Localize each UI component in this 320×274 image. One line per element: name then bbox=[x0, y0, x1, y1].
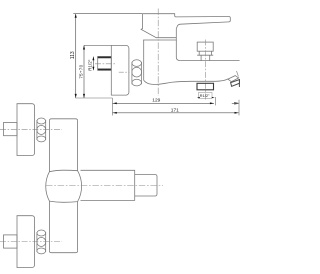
body bar left edge bbox=[48, 121, 50, 251]
inlet 2 union pipe bbox=[4, 235, 18, 248]
extension/flange-top line (75÷70 top) bbox=[84, 44, 112, 46]
aerator block A bbox=[228, 76, 239, 82]
body top line bbox=[180, 60, 239, 62]
dimension 171 arrows bbox=[113, 112, 239, 114]
flange escutcheon cup bbox=[111, 45, 129, 95]
spout tube (plan) bbox=[81, 170, 135, 200]
shower connector neck bbox=[201, 55, 210, 61]
extension line left (wall face) for 129/171 bbox=[111, 98, 113, 116]
shower connector centerline bbox=[204, 40, 206, 100]
inlet 2 flange disc (edge view) bbox=[17, 216, 35, 268]
spout axis centerline bbox=[46, 185, 163, 187]
svg-text:113: 113 bbox=[70, 51, 76, 59]
union thread band bottom (thick) bbox=[98, 68, 112, 70]
R1/2 text box bbox=[199, 93, 213, 99]
svg-text:171: 171 bbox=[171, 108, 179, 114]
inlet 1 union pipe bbox=[4, 123, 18, 136]
body bar bottom edge bbox=[49, 251, 77, 253]
svg-text:R1/2": R1/2" bbox=[87, 59, 92, 71]
union centerline bbox=[95, 63, 117, 65]
outlet width arrows bbox=[197, 97, 215, 98]
extension line bottom (body bottom plane) bbox=[75, 97, 112, 99]
dimension R1/2 arrows bbox=[92, 57, 94, 71]
aerator clipped edge bbox=[238, 79, 240, 87]
inlet 1 flange disc (edge view) bbox=[17, 104, 35, 156]
dimension 75÷70 arrows bbox=[83, 46, 85, 98]
extra arrow at right (129 aux) bbox=[232, 102, 239, 104]
cartridge axis centerline (vertical) bbox=[157, 9, 159, 97]
dimension 129 line bbox=[113, 102, 214, 104]
svg-text:75÷70: 75÷70 bbox=[78, 64, 83, 78]
inlet 2 nut bbox=[37, 230, 46, 254]
aerator block B (dark) bbox=[231, 80, 241, 87]
cartridge housing right edge with corner into body top bbox=[176, 40, 180, 61]
inlet 1 centerline bbox=[0, 128, 62, 130]
extension line mid (spout outlet) bbox=[215, 97, 217, 105]
cartridge housing left edge / body left bbox=[143, 40, 145, 80]
dimension 113 line bbox=[73, 14, 142, 98]
cartridge bulge (plan) bbox=[46, 170, 82, 202]
spout tip (plan) bbox=[135, 175, 157, 197]
lever handle outline bbox=[141, 14, 230, 38]
dimension 171 line bbox=[113, 112, 239, 114]
shower connector collar bbox=[199, 51, 211, 55]
svg-text:R1/2": R1/2" bbox=[200, 93, 210, 98]
shower connector on top: outer block bbox=[197, 42, 213, 51]
cartridge cap top line bbox=[143, 29, 176, 40]
dimension 129 arrows bbox=[113, 102, 214, 104]
union thread band top (thick) bbox=[98, 56, 112, 58]
body bar top edge bbox=[49, 119, 77, 121]
dimension 75÷70 line bbox=[83, 45, 85, 98]
body bar right edge bbox=[77, 121, 79, 251]
dimension R1/2 line (union thread) bbox=[92, 57, 94, 71]
inlet 1 nut bbox=[37, 118, 46, 142]
svg-text:129: 129 bbox=[152, 98, 160, 104]
shower outlet G-box below body (thick) bbox=[197, 83, 214, 90]
inlet 2 centerline bbox=[0, 241, 62, 243]
body bottom line bbox=[144, 79, 229, 85]
extension line right (spout tip) bbox=[238, 100, 240, 116]
shower connector flange line bbox=[197, 54, 213, 56]
eccentric union body bbox=[98, 57, 112, 71]
dimension 113 arrows bbox=[75, 14, 77, 98]
spout end cut edge bbox=[237, 71, 239, 76]
body axis centerline (short) bbox=[119, 71, 130, 73]
connection nut (side view) bbox=[132, 60, 142, 86]
